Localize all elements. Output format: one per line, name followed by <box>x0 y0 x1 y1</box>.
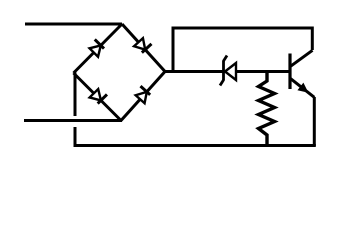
diode D2 bridge upper-right <box>134 36 151 53</box>
transistor Q1 <box>290 50 314 97</box>
wire left-vertex drop upper segment <box>74 73 77 117</box>
zener diode D5 <box>220 56 236 86</box>
wire bridge top-left side <box>74 24 123 73</box>
resistor R1 <box>259 72 275 147</box>
wire bridge bottom-right side <box>121 72 165 121</box>
wire middle left segment <box>165 70 224 73</box>
wire bottom rail <box>74 144 316 147</box>
wire bottom AC input <box>24 119 122 122</box>
wire bridge bottom-left side <box>74 73 122 121</box>
diode D4 bridge lower-right <box>134 86 151 103</box>
diode D1 bridge upper-left <box>88 39 105 56</box>
wire emitter vertical <box>313 97 316 146</box>
wire left-vertex drop lower segment <box>74 127 77 146</box>
wire top AC input <box>25 23 122 26</box>
wire bridge top-right side <box>122 24 165 72</box>
wire collector loop <box>173 28 312 72</box>
wire middle right segment <box>235 70 292 73</box>
diode D3 bridge lower-left <box>90 87 107 104</box>
